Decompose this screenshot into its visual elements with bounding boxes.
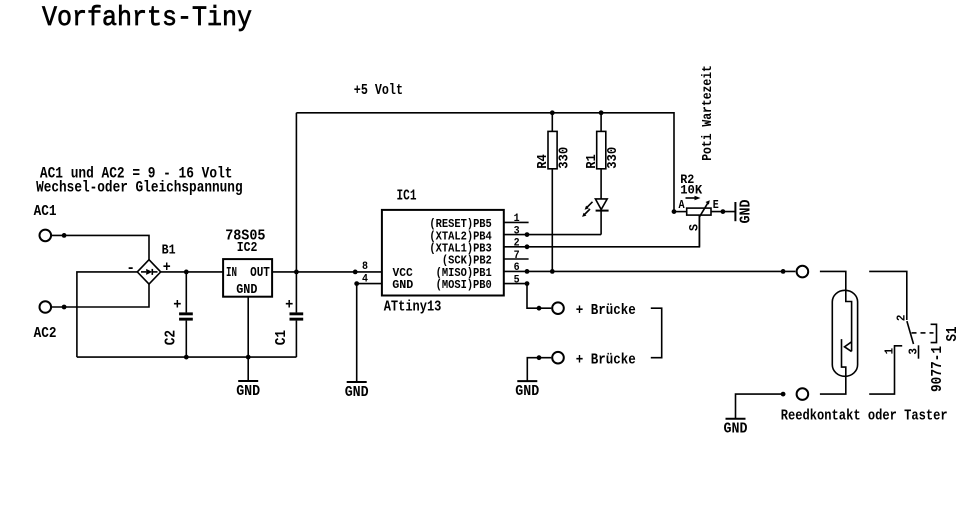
svg-text:+: + <box>285 296 293 313</box>
svg-text:-: - <box>126 260 135 277</box>
svg-text:GND: GND <box>515 383 539 400</box>
svg-text:+ Brücke: + Brücke <box>576 302 636 319</box>
svg-text:IN: IN <box>226 265 237 281</box>
svg-text:S1: S1 <box>944 327 958 342</box>
svg-text:+: + <box>173 296 181 313</box>
svg-text:ATtiny13: ATtiny13 <box>384 299 442 316</box>
svg-text:E: E <box>713 198 719 212</box>
svg-text:2: 2 <box>894 315 908 322</box>
svg-text:6: 6 <box>514 262 520 274</box>
svg-text:330: 330 <box>556 147 572 169</box>
svg-text:+5 Volt: +5 Volt <box>354 82 403 99</box>
svg-text:9077-1: 9077-1 <box>929 346 946 392</box>
svg-text:GND: GND <box>392 278 413 292</box>
svg-text:R4: R4 <box>535 154 551 169</box>
svg-text:330: 330 <box>605 147 621 169</box>
svg-text:GND: GND <box>236 383 260 400</box>
svg-text:1: 1 <box>514 213 520 225</box>
svg-text:IC2: IC2 <box>237 240 258 256</box>
svg-text:GND: GND <box>345 384 369 401</box>
svg-text:AC1: AC1 <box>34 203 57 220</box>
svg-text:3: 3 <box>906 348 920 355</box>
svg-text:Vorfahrts-Tiny: Vorfahrts-Tiny <box>42 3 252 34</box>
svg-text:+: + <box>163 259 171 276</box>
svg-text:IC1: IC1 <box>397 187 417 204</box>
svg-text:8: 8 <box>362 261 368 273</box>
svg-text:C1: C1 <box>273 330 290 345</box>
svg-text:B1: B1 <box>162 242 176 258</box>
svg-text:AC2: AC2 <box>34 325 57 342</box>
svg-text:GND: GND <box>724 420 748 437</box>
svg-text:C2: C2 <box>162 330 179 345</box>
svg-text:2: 2 <box>514 238 520 250</box>
svg-text:7: 7 <box>514 250 520 262</box>
svg-text:+ Brücke: + Brücke <box>576 352 636 369</box>
svg-text:1: 1 <box>883 348 897 355</box>
svg-text:A: A <box>679 198 686 212</box>
svg-text:Reedkontakt oder Taster: Reedkontakt oder Taster <box>781 408 948 425</box>
svg-text:10K: 10K <box>680 183 702 198</box>
svg-text:3: 3 <box>514 225 520 237</box>
svg-text:R1: R1 <box>584 154 600 169</box>
svg-text:GND: GND <box>738 200 755 224</box>
svg-text:(MOSI)PB0: (MOSI)PB0 <box>436 278 492 292</box>
svg-text:GND: GND <box>236 282 257 298</box>
svg-text:Poti Wartezeit: Poti Wartezeit <box>700 65 716 161</box>
svg-text:5: 5 <box>514 274 520 286</box>
svg-text:OUT: OUT <box>250 265 270 281</box>
svg-text:Wechsel-oder Gleichspannung: Wechsel-oder Gleichspannung <box>36 178 243 196</box>
